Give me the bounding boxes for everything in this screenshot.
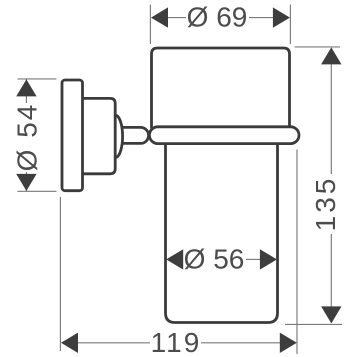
svg-text:Ø 56: Ø 56 <box>184 244 245 275</box>
arrow 119 right <box>280 333 297 353</box>
wall mounting plate (side view) <box>62 80 83 191</box>
dim Ø69 extension line left <box>149 5 151 45</box>
arrow Ø56 right <box>260 249 277 269</box>
arrow Ø69 right <box>273 7 290 27</box>
holder rod <box>123 127 149 143</box>
dim Ø69 extension line right <box>289 5 291 45</box>
arrow Ø69 left <box>151 7 168 27</box>
arrow 135 down <box>321 306 341 323</box>
dim Ø54 line segments <box>25 79 27 103</box>
arrow 119 left <box>61 333 78 353</box>
dim Ø56 line segment right <box>246 258 260 260</box>
dim Ø69 line segments <box>168 17 187 19</box>
arrow Ø54 up <box>16 79 36 96</box>
arrow 135 up <box>321 47 341 64</box>
arrow Ø54 down <box>16 174 36 191</box>
dim Ø54 extension line bottom <box>18 190 57 192</box>
svg-text:119: 119 <box>151 327 202 357</box>
svg-text:Ø 54: Ø 54 <box>12 103 43 172</box>
tumbler lower body (Ø56 part) <box>166 134 278 323</box>
svg-text:135: 135 <box>310 176 341 232</box>
ball joint dome <box>114 115 123 157</box>
tumbler upper rim (Ø69 part) <box>152 48 290 129</box>
dim Ø54 extension line top <box>18 78 57 80</box>
escutcheon (front cover plate) <box>81 98 115 173</box>
svg-text:Ø 69: Ø 69 <box>187 2 248 33</box>
arrow Ø56 left <box>166 249 183 269</box>
holder ring (side view stadium) <box>149 127 299 144</box>
dim 135 extension line bottom <box>285 323 342 325</box>
dim 119 line segments <box>62 342 150 344</box>
dim 135 line segments <box>330 48 332 174</box>
dim 135 extension line top <box>295 46 341 48</box>
dim 119 extension line right <box>296 150 298 355</box>
dim 119 extension line left <box>59 197 61 351</box>
